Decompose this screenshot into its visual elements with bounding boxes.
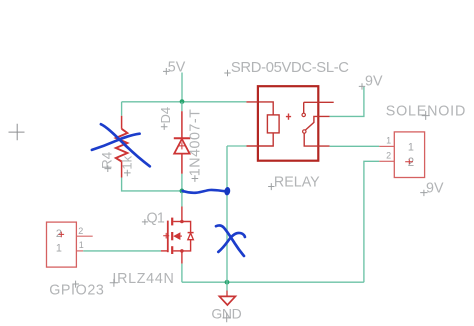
- junction Q1 source: [180, 249, 184, 253]
- sheet origin crosshair: [9, 124, 25, 141]
- wire relay common to solenoid pin 1: [330, 145, 380, 147]
- wire GPIO23 pin 1 to Q1 gate: [83, 250, 161, 252]
- transistor Q1 (IRLZ44N MOSFET): [161, 207, 194, 264]
- annotation blue blob at squiggle end: [224, 187, 231, 196]
- svg-text:IRLZ44N: IRLZ44N: [112, 271, 174, 287]
- junction node A: [180, 189, 185, 194]
- wire relay armature to 9V: [330, 87, 364, 116]
- svg-text:9V: 9V: [426, 180, 444, 196]
- relay switch NC contact: [302, 102, 334, 116]
- annotation blue X over vertical wire stroke 2: [218, 233, 245, 252]
- relay coil pin stubs (left): [246, 102, 258, 146]
- relay value label SRD-05VDC-SL-C: [224, 60, 349, 76]
- wire relay coil bottom to drain column: [227, 145, 246, 147]
- connector J2 SOLENOID box: [394, 132, 424, 178]
- wire diode top stub: [181, 102, 183, 111]
- junction 5V node: [180, 99, 185, 104]
- power 9V label (top): [359, 74, 383, 90]
- junction ground rail: [225, 280, 230, 285]
- wire left branch down to R4: [121, 102, 123, 116]
- power 5V label: [163, 60, 186, 76]
- svg-text:1: 1: [56, 243, 62, 255]
- connector J1 pin 1 stub: [76, 250, 83, 252]
- svg-text:9V: 9V: [365, 74, 383, 90]
- svg-text:1: 1: [386, 136, 391, 146]
- connector J1 anchor cross: [59, 232, 65, 238]
- svg-text:SRD-05VDC-SL-C: SRD-05VDC-SL-C: [231, 60, 349, 76]
- svg-text:2: 2: [408, 157, 414, 169]
- relay reference label RELAY: [268, 175, 320, 191]
- annotation blue X over R4 stroke 1: [101, 124, 150, 166]
- diode D4: [174, 111, 190, 174]
- diode D4 value label 1N4007-T: [187, 109, 203, 182]
- svg-text:1: 1: [408, 141, 414, 153]
- svg-text:D4: D4: [158, 107, 173, 124]
- wire vertical drain column (crossed out): [226, 146, 228, 282]
- connector J1 pin 2 stub: [76, 235, 92, 237]
- svg-text:1k: 1k: [120, 155, 135, 169]
- wire ground rail: [182, 281, 364, 283]
- wire Q1 source to ground rail: [181, 264, 183, 283]
- junction Q1 drain: [180, 220, 184, 224]
- svg-text:GPIO23: GPIO23: [49, 282, 104, 298]
- svg-text:1N4007-T: 1N4007-T: [187, 109, 203, 177]
- wire solenoid pin 2 to ground rail: [364, 161, 379, 282]
- svg-text:1: 1: [79, 240, 84, 250]
- diode D4 reference label: [158, 107, 173, 130]
- ground GND symbol: [219, 291, 235, 306]
- resistor R4 reference label: [99, 151, 114, 172]
- svg-text:Q1: Q1: [147, 211, 165, 227]
- wire 5V to top rail: [181, 73, 183, 102]
- ground GND label: [211, 306, 241, 323]
- svg-text:5V: 5V: [168, 60, 186, 76]
- resistor R4: [116, 116, 128, 178]
- transistor Q1 reference label: [142, 211, 165, 227]
- wire ground stub: [226, 282, 228, 290]
- svg-text:2: 2: [78, 226, 83, 236]
- wire node A down to Q1 drain: [181, 191, 183, 207]
- connector J1 GPIO23 box: [47, 222, 77, 267]
- connector J2 label SOLENOID: [386, 104, 466, 120]
- svg-text:2: 2: [386, 151, 391, 161]
- relay switch armature: [303, 116, 330, 133]
- wire top rail (5V node): [122, 101, 247, 103]
- resistor R4 value label 1k: [120, 155, 135, 176]
- wire diode bottom to node A: [181, 174, 183, 191]
- annotation blue X over vertical wire stroke 1: [216, 225, 244, 256]
- relay coil polarity +: [286, 114, 291, 120]
- relay K1 box: [258, 86, 318, 161]
- svg-text:R4: R4: [99, 151, 114, 169]
- wire R4 bottom to node A: [122, 178, 182, 191]
- connector J2 pin 2 stub: [379, 160, 394, 162]
- transistor Q1 value label IRLZ44N: [110, 271, 175, 287]
- connector J2 anchor cross: [405, 159, 413, 164]
- relay switch common pin: [304, 133, 329, 146]
- relay coil: [259, 102, 279, 146]
- connector J1 label GPIO23: [49, 281, 104, 299]
- svg-text:RELAY: RELAY: [274, 175, 320, 191]
- annotation blue squiggle wire from node A: [183, 190, 225, 193]
- annotation blue X over R4 stroke 2: [92, 134, 140, 150]
- connector J2 pin 1 stub: [379, 145, 394, 147]
- power 9V label (bottom): [420, 180, 444, 196]
